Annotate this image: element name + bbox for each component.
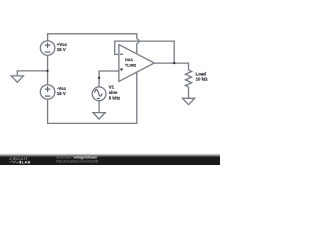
svg-text:V1: V1 (109, 85, 115, 90)
svg-text:10 kΩ: 10 kΩ (196, 76, 208, 81)
svg-text:http://circuitlab.com/c/5qm38: http://circuitlab.com/c/5qm38 (56, 160, 98, 164)
svg-text:15 V: 15 V (57, 91, 66, 96)
svg-text:LAB: LAB (22, 160, 31, 165)
svg-text:TL082: TL082 (125, 63, 137, 68)
svg-text:5 kHz: 5 kHz (109, 96, 120, 101)
svg-text:OA1: OA1 (125, 57, 134, 62)
svg-text:sine: sine (109, 90, 118, 95)
svg-text:15 V: 15 V (57, 47, 66, 52)
